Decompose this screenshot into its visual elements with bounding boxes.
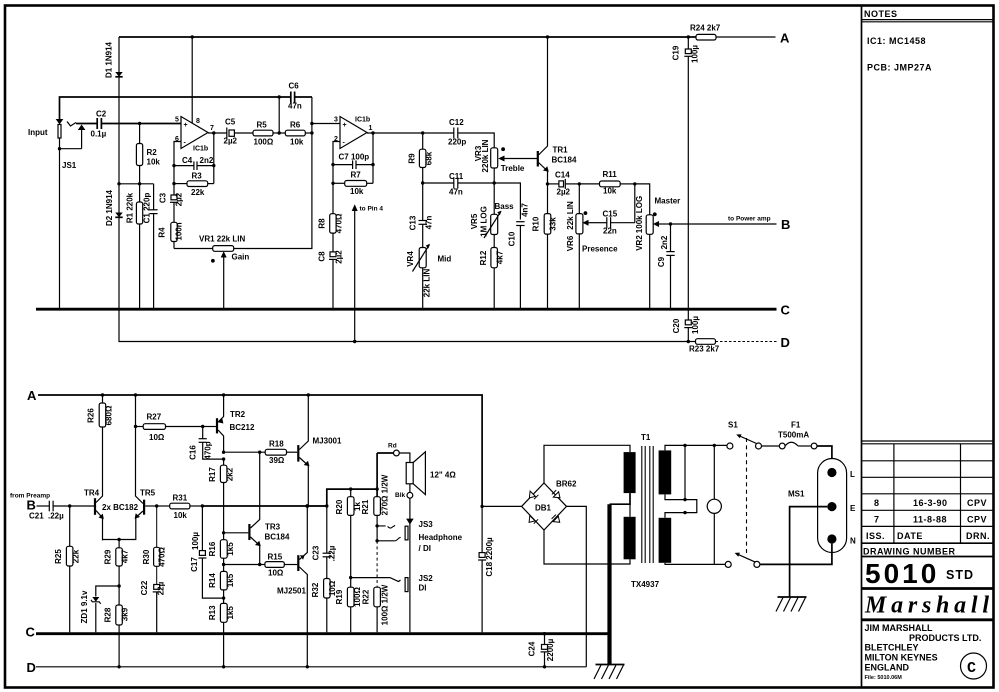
- svg-text:A: A: [780, 31, 790, 46]
- resistor R1: [139, 184, 141, 202]
- svg-text:10k: 10k: [290, 138, 304, 147]
- svg-text:L: L: [850, 470, 855, 479]
- svg-text:JS2: JS2: [419, 574, 434, 583]
- svg-text:MILTON KEYNES: MILTON KEYNES: [865, 653, 938, 663]
- resistor R19: [350, 578, 352, 588]
- capacitor C3: [173, 184, 175, 195]
- junction output node: [305, 504, 309, 508]
- resistor R17: [223, 459, 225, 465]
- svg-text:TR4: TR4: [84, 489, 100, 498]
- primary selector link: [684, 445, 686, 499]
- VR1 orientation dot: [211, 259, 215, 263]
- svg-text:2µ2: 2µ2: [224, 137, 238, 146]
- revision table grid: [862, 441, 993, 543]
- wire C2 to op-amp: [101, 123, 181, 125]
- svg-text:22k: 22k: [72, 549, 81, 563]
- svg-text:1k5: 1k5: [226, 573, 235, 587]
- junction C4 right: [212, 164, 215, 167]
- svg-text:10k: 10k: [174, 511, 188, 520]
- svg-text:File: 5010.06M: File: 5010.06M: [865, 675, 903, 681]
- svg-text:2µ2: 2µ2: [175, 192, 184, 206]
- svg-text:C: C: [26, 625, 36, 640]
- resistor R10: [547, 184, 549, 214]
- bridge diode glyphs: [529, 490, 560, 523]
- svg-text:S1: S1: [728, 421, 738, 430]
- svg-text:R6: R6: [290, 121, 301, 130]
- svg-text:C: C: [967, 660, 976, 677]
- svg-text:C9: C9: [657, 256, 666, 267]
- svg-text:R14: R14: [208, 573, 217, 588]
- wire C12 to VR3 top: [458, 133, 494, 148]
- rail C top: [36, 308, 777, 311]
- svg-text:1k5: 1k5: [226, 606, 235, 620]
- fuse F1 T500mA: [762, 445, 780, 447]
- svg-text:.22µ: .22µ: [48, 512, 64, 521]
- VR3 wiper arrow from TR1 base: [502, 158, 538, 160]
- pot VR4 22k LIN (Mid): [422, 224, 424, 247]
- resistor R3: [174, 183, 187, 185]
- svg-text:N: N: [850, 537, 856, 546]
- svg-text:R27: R27: [147, 413, 162, 422]
- svg-text:Master: Master: [655, 197, 681, 206]
- svg-text:R8: R8: [318, 218, 327, 229]
- svg-text:2n2: 2n2: [660, 235, 669, 249]
- wire op-amp out down feedback: [213, 133, 215, 184]
- wire A rail to R24: [716, 36, 776, 38]
- svg-text:VR1 22k LIN: VR1 22k LIN: [199, 235, 245, 244]
- svg-text:C15: C15: [603, 210, 618, 219]
- capacitor C13: [422, 183, 424, 221]
- transistor TR1 BC184: [537, 151, 539, 167]
- junction R9/C11: [421, 181, 424, 184]
- junction R14/R13/C17: [222, 596, 225, 599]
- svg-text:22k: 22k: [191, 188, 205, 197]
- svg-text:R5: R5: [257, 121, 268, 130]
- transistor TR3 BC184: [248, 524, 250, 540]
- svg-text:C18 2200µ: C18 2200µ: [485, 537, 494, 577]
- resistor R21: [375, 487, 378, 490]
- svg-text:STD: STD: [946, 568, 974, 582]
- svg-text:1k5: 1k5: [226, 542, 235, 556]
- NOTES underline: [862, 19, 993, 21]
- bridge rectifier DB1 BR62: [522, 483, 567, 530]
- svg-text:470Ω: 470Ω: [335, 213, 344, 233]
- revision table thick line: [862, 542, 993, 544]
- svg-text:7: 7: [874, 514, 880, 524]
- svg-text:3k9: 3k9: [121, 607, 130, 621]
- svg-text:DB1: DB1: [535, 504, 552, 513]
- svg-text:0.1µ: 0.1µ: [91, 130, 107, 139]
- svg-text:to Power amp: to Power amp: [728, 216, 771, 223]
- wire pin2 stub down: [333, 142, 340, 165]
- svg-text:C19: C19: [672, 45, 681, 60]
- rail A lower: [38, 395, 482, 506]
- signal wire jack to C2: [76, 123, 97, 125]
- svg-text:R23 2k7: R23 2k7: [689, 345, 720, 354]
- op-amp IC1b triangle: [340, 117, 367, 149]
- rail A top: [119, 36, 696, 38]
- svg-text:R1 220k: R1 220k: [126, 192, 135, 223]
- junction R2 top: [138, 122, 141, 125]
- wire bridge AC bottom to secondary: [544, 530, 630, 564]
- svg-text:R16: R16: [208, 541, 217, 556]
- svg-text:100Ω: 100Ω: [254, 138, 274, 147]
- svg-text:8: 8: [196, 118, 200, 125]
- svg-text:C6: C6: [289, 82, 300, 91]
- svg-text:11-8-88: 11-8-88: [913, 514, 947, 524]
- svg-text:C: C: [781, 303, 791, 318]
- svg-text:DRN.: DRN.: [966, 531, 990, 541]
- switch S1 pole 1: [727, 443, 733, 449]
- resistor R22: [376, 541, 378, 587]
- svg-text:R4: R4: [158, 227, 167, 238]
- svg-text:C8: C8: [318, 251, 327, 262]
- speaker terminal Rd: [394, 450, 400, 456]
- capacitor C19: [685, 49, 691, 54]
- svg-text:B: B: [781, 217, 790, 232]
- wire fuse to MS1 L: [817, 446, 832, 468]
- svg-text:BC184: BC184: [552, 156, 577, 165]
- resistor R7: [332, 165, 334, 184]
- svg-text:JS3: JS3: [419, 520, 434, 529]
- svg-text:100µ: 100µ: [191, 532, 200, 550]
- svg-text:5: 5: [175, 117, 179, 124]
- pot VR5 1M LOG (Bass): [493, 183, 495, 214]
- junction C6 line / R5R6: [278, 95, 281, 98]
- svg-text:R9: R9: [408, 153, 417, 164]
- VR2 orientation dot: [653, 212, 657, 216]
- svg-text:R3: R3: [192, 172, 203, 181]
- junction TR1 emitter: [546, 182, 549, 185]
- junction R20/R19/JS2: [349, 576, 352, 579]
- speaker terminal Blk: [407, 492, 413, 498]
- svg-text:C17: C17: [190, 557, 199, 572]
- svg-text:to Pin 4: to Pin 4: [360, 206, 384, 213]
- pot VR1 22k LIN: [213, 246, 234, 252]
- svg-text:R12: R12: [479, 250, 488, 265]
- svg-text:2µ2: 2µ2: [335, 250, 344, 264]
- resistor R5: [253, 130, 273, 136]
- switch S1 link dashed: [746, 438, 748, 556]
- capacitor C4: [174, 165, 194, 167]
- resistor R14: [223, 565, 225, 572]
- svg-text:47n: 47n: [288, 102, 302, 111]
- pot VR3 220k LIN (Treble): [491, 148, 498, 168]
- svg-text:C14: C14: [555, 171, 570, 180]
- svg-text:R29: R29: [104, 549, 113, 564]
- svg-text:MJ3001: MJ3001: [313, 437, 342, 446]
- svg-text:CPV: CPV: [967, 514, 987, 524]
- resistor R18: [224, 451, 266, 453]
- svg-text:100k LOG: 100k LOG: [635, 196, 644, 233]
- svg-text:A: A: [27, 388, 37, 403]
- junction C11/VR3 bottom: [493, 181, 496, 184]
- pot VR2 100k LOG (Master): [646, 215, 653, 235]
- svg-text:R15: R15: [268, 553, 283, 562]
- VR2 wiper arrow: [657, 223, 671, 225]
- svg-text:TR5: TR5: [140, 489, 156, 498]
- speaker 12in 4ohm: [406, 463, 413, 484]
- svg-text:5010: 5010: [865, 558, 939, 589]
- svg-text:R24 2k7: R24 2k7: [690, 24, 721, 33]
- wire C11 to C10 corner: [494, 183, 520, 220]
- svg-text:C5: C5: [225, 118, 236, 127]
- svg-text:JS1: JS1: [62, 161, 77, 170]
- VR6 orientation dot: [584, 211, 588, 215]
- transformer T1 secondary coils: [624, 452, 636, 493]
- capacitor C16: [202, 427, 204, 439]
- svg-text:7: 7: [210, 125, 214, 132]
- emitter bus TR4/TR5: [103, 539, 120, 541]
- junction C4 left: [172, 164, 175, 167]
- svg-text:Treble: Treble: [501, 164, 525, 173]
- mains socket MS1: [818, 459, 847, 553]
- svg-text:1: 1: [369, 125, 373, 132]
- svg-text:1M LOG: 1M LOG: [479, 206, 488, 237]
- wire A junction down to C19: [687, 37, 689, 49]
- junction TR3 emitter / R15: [258, 563, 261, 566]
- svg-text:BR62: BR62: [556, 480, 577, 489]
- svg-text:22µ: 22µ: [157, 581, 166, 595]
- wire R11 to VR2 top: [635, 184, 650, 215]
- wire pin6 stub: [174, 142, 181, 166]
- svg-text:3: 3: [334, 117, 338, 124]
- capacitor C18: [480, 505, 483, 508]
- capacitor C15: [593, 222, 607, 224]
- capacitor C6: [290, 92, 292, 103]
- svg-text:Mid: Mid: [438, 255, 452, 264]
- resistor R4: [173, 202, 175, 222]
- svg-text:270Ω 1/2W: 270Ω 1/2W: [381, 474, 390, 515]
- primary bottom outer: [665, 563, 725, 565]
- svg-text:PRODUCTS LTD.: PRODUCTS LTD.: [909, 633, 981, 643]
- svg-text:R32: R32: [311, 582, 320, 597]
- junction tap: [683, 444, 686, 447]
- resistor R20: [349, 487, 352, 490]
- junction D rail dots: [117, 665, 120, 668]
- svg-text:2k2: 2k2: [225, 467, 234, 481]
- wire JS2 contact from R19/R20: [351, 578, 401, 582]
- capacitor C8: [332, 233, 334, 252]
- svg-text:R21: R21: [361, 499, 370, 514]
- svg-text:100n: 100n: [175, 222, 184, 240]
- line below Marshall: [862, 618, 993, 621]
- svg-text:22k LIN: 22k LIN: [566, 201, 575, 230]
- svg-text:470p: 470p: [204, 441, 213, 459]
- wire N pin down to S1 pole2: [760, 544, 832, 565]
- svg-text:100µ: 100µ: [691, 316, 700, 334]
- transistor TR4 BC182: [94, 498, 96, 515]
- resistor R27: [136, 426, 144, 428]
- resistor R13: [223, 598, 225, 603]
- junction A/C19: [687, 35, 690, 38]
- svg-text:C10: C10: [508, 231, 517, 246]
- svg-text:CPV: CPV: [967, 498, 987, 508]
- resistor R9: [422, 133, 424, 149]
- wire VR1 right feedback up: [234, 97, 312, 249]
- svg-text:TX4937: TX4937: [631, 580, 660, 589]
- svg-text:10k: 10k: [350, 187, 364, 196]
- svg-text:DATE: DATE: [897, 531, 923, 541]
- capacitor C9: [670, 224, 672, 252]
- svg-text:R26: R26: [87, 408, 96, 423]
- svg-text:220p: 220p: [448, 138, 466, 147]
- copyright circle C: [961, 653, 987, 679]
- svg-text:C20: C20: [672, 318, 681, 333]
- svg-text:C7 100p: C7 100p: [339, 153, 370, 162]
- wire feedback line to output: [202, 505, 326, 507]
- svg-text:R20: R20: [335, 499, 344, 514]
- svg-text:ZD1 9.1v: ZD1 9.1v: [80, 590, 89, 623]
- capacitor C11: [423, 182, 454, 184]
- svg-text:100Ω 1/2W: 100Ω 1/2W: [381, 584, 390, 625]
- svg-text:B: B: [27, 498, 36, 513]
- pot VR6 22k LIN (Presence): [578, 184, 580, 214]
- svg-text:C1 220p: C1 220p: [143, 193, 152, 224]
- zener ZD1 9.1v: [96, 586, 119, 597]
- svg-text:ENGLAND: ENGLAND: [865, 663, 910, 673]
- resistor R11: [579, 183, 599, 185]
- capacitor C24: [543, 632, 546, 635]
- resistor R30: [156, 506, 158, 547]
- svg-text:BC212: BC212: [230, 423, 255, 432]
- wire output tee: [306, 505, 327, 507]
- op-amp IC1a triangle: [181, 117, 208, 149]
- JS3 switch contacts: [375, 524, 378, 527]
- capacitor C20: [685, 320, 691, 325]
- svg-text:470Ω: 470Ω: [157, 547, 166, 567]
- svg-text:C22: C22: [140, 580, 149, 595]
- svg-text:Headphone: Headphone: [419, 533, 463, 542]
- svg-text:Bass: Bass: [495, 202, 515, 211]
- wire R2 bottom to junction: [139, 166, 141, 184]
- VR1 wiper arrow to C rail: [223, 256, 225, 309]
- svg-text:33k: 33k: [548, 217, 557, 231]
- capacitor C5: [208, 132, 227, 134]
- svg-text:8: 8: [874, 498, 880, 508]
- svg-text:R19: R19: [335, 589, 344, 604]
- svg-text:R25: R25: [54, 549, 63, 564]
- svg-text:C11: C11: [449, 172, 464, 181]
- junction TR2 base / C16: [201, 425, 204, 428]
- junction op-amp out: [212, 131, 215, 134]
- svg-text:E: E: [850, 504, 856, 513]
- svg-text:22k LIN: 22k LIN: [423, 269, 432, 298]
- capacitor C17: [201, 506, 203, 551]
- junction R29/R28/ZD1: [117, 584, 120, 587]
- svg-text:D2 1N914: D2 1N914: [105, 189, 114, 226]
- wire R23 to D dashed: [716, 341, 777, 343]
- capacitor C7: [331, 163, 334, 166]
- svg-text:VR2: VR2: [635, 235, 644, 251]
- svg-text:/ DI: / DI: [419, 544, 431, 553]
- rail D top: [119, 309, 688, 341]
- pilot lamp: [713, 445, 715, 499]
- resistor R31: [157, 505, 170, 507]
- wire bridge AC top to secondary: [544, 445, 630, 483]
- primary top outer to S1: [665, 445, 727, 450]
- wire JS1 sleeve to C rail: [59, 149, 61, 308]
- svg-text:.22µ: .22µ: [328, 545, 337, 561]
- resistor R26: [99, 403, 106, 427]
- VR3 orientation dot: [501, 147, 505, 151]
- svg-text:R22: R22: [361, 589, 370, 604]
- svg-text:39Ω: 39Ω: [269, 456, 285, 465]
- svg-text:T500mA: T500mA: [778, 431, 809, 440]
- wire R5 to R6: [273, 132, 285, 134]
- svg-text:Blk: Blk: [395, 492, 406, 499]
- svg-text:100µ: 100µ: [691, 45, 700, 63]
- svg-text:MJ2501: MJ2501: [277, 587, 306, 596]
- svg-text:VR4: VR4: [406, 251, 415, 267]
- junction R16/R14/R15: [222, 563, 225, 566]
- TR5 base wire: [145, 505, 157, 507]
- svg-text:BC184: BC184: [265, 533, 290, 542]
- notes panel divider: [861, 6, 863, 687]
- jack JS2 DI: [405, 578, 408, 592]
- svg-text:IC1: MC1458: IC1: MC1458: [867, 36, 926, 46]
- line below 5010: [862, 587, 993, 590]
- svg-text:+: +: [184, 122, 188, 129]
- capacitor C2: [96, 118, 98, 129]
- svg-text:C24: C24: [528, 641, 537, 656]
- junction D/R23: [687, 340, 690, 343]
- svg-text:R11: R11: [603, 170, 618, 179]
- svg-text:C23: C23: [311, 545, 320, 560]
- svg-text:VR6: VR6: [566, 235, 575, 251]
- wire C20 crossing: [687, 311, 689, 321]
- svg-text:Gain: Gain: [232, 253, 250, 262]
- ground symbol main: [596, 664, 625, 666]
- wire C15 up to R11 right: [634, 184, 636, 223]
- resistor R28: [118, 586, 120, 605]
- resistor R15: [260, 564, 265, 566]
- transistor TR5 BC182 (mirrored): [143, 500, 145, 515]
- junction TR3 base: [222, 531, 225, 534]
- svg-text:16-3-90: 16-3-90: [913, 498, 948, 508]
- input line y97: [60, 97, 291, 119]
- svg-text:2200µ: 2200µ: [546, 638, 555, 661]
- wire op2 out to C12: [367, 132, 454, 134]
- resistor R12: [493, 235, 495, 248]
- switch S1 pole 2: [725, 561, 731, 567]
- svg-text:R18: R18: [269, 440, 284, 449]
- diode D1 1N914: [118, 37, 120, 309]
- transformer core: [642, 446, 653, 563]
- svg-text:R28: R28: [104, 607, 113, 622]
- resistor R29: [118, 540, 120, 548]
- svg-text:C3: C3: [159, 192, 168, 203]
- capacitor C21: [37, 505, 50, 507]
- svg-text:R2: R2: [147, 148, 158, 157]
- svg-text:JIM MARSHALL: JIM MARSHALL: [865, 623, 933, 633]
- wire R6 to vertical: [305, 132, 312, 134]
- wire vertical to op-amp2 +in: [312, 123, 340, 125]
- VR6 wiper arrow and C15: [586, 222, 593, 224]
- svg-text:R10: R10: [532, 216, 541, 231]
- svg-text:220k LIN: 220k LIN: [481, 139, 490, 172]
- svg-text:22n: 22n: [603, 227, 617, 236]
- svg-text:MS1: MS1: [788, 490, 805, 499]
- svg-text:TR1: TR1: [553, 146, 569, 155]
- svg-text:R30: R30: [142, 549, 151, 564]
- svg-text:Presence: Presence: [582, 245, 618, 254]
- svg-text:2µ2: 2µ2: [557, 188, 571, 197]
- junction C9: [669, 222, 672, 225]
- svg-text:47n: 47n: [449, 188, 463, 197]
- resistor R24: [696, 34, 716, 40]
- junction R25: [68, 504, 71, 507]
